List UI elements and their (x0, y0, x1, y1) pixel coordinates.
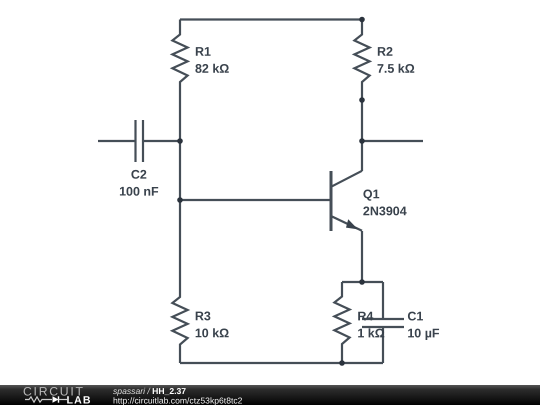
svg-text:Q1: Q1 (363, 187, 380, 201)
node base (177, 197, 183, 203)
svg-text:R1: R1 (195, 45, 211, 59)
transistor Q1 (331, 141, 362, 231)
svg-text:7.5 kΩ: 7.5 kΩ (377, 62, 415, 76)
svg-text:LAB: LAB (67, 394, 92, 405)
wire output (362, 140, 423, 142)
wire R1 bottom to node (179, 100, 181, 141)
wire R2 bottom to collector node (361, 100, 363, 141)
svg-text:R4: R4 (357, 309, 373, 323)
node top right (359, 17, 365, 23)
wire R4 top rail (342, 281, 383, 283)
svg-text:82 kΩ: 82 kΩ (195, 62, 229, 76)
node emitter rail (359, 279, 365, 285)
capacitor C1 (362, 282, 404, 363)
CircuitLab logo (23, 385, 92, 407)
node C2 right (177, 138, 183, 144)
svg-text:C2: C2 (131, 168, 147, 182)
svg-text:C1: C1 (407, 309, 423, 323)
node R4 bottom (339, 360, 345, 366)
svg-text:2N3904: 2N3904 (363, 204, 407, 218)
svg-text:1 kΩ: 1 kΩ (357, 326, 384, 340)
resistor R3 (172, 282, 187, 363)
node R2 bottom (359, 97, 365, 103)
wire top rail (180, 18, 362, 20)
capacitor C2 (98, 120, 180, 162)
wire bottom rail (180, 362, 383, 364)
svg-text:100 nF: 100 nF (119, 185, 159, 199)
wire left column to R3 (179, 200, 181, 282)
svg-text:10 kΩ: 10 kΩ (195, 326, 229, 340)
svg-text:R2: R2 (377, 45, 393, 59)
resistor R1 (172, 20, 187, 101)
wire left column down (179, 141, 181, 200)
svg-text:http://circuitlab.com/ctz53kp6: http://circuitlab.com/ctz53kp6t8tc2 (113, 395, 243, 405)
wire emitter to node (361, 231, 363, 282)
svg-text:R3: R3 (195, 309, 211, 323)
wire base (180, 199, 330, 201)
resistor R2 (354, 20, 369, 101)
svg-text:10 µF: 10 µF (407, 326, 440, 340)
footer bar (0, 385, 540, 405)
node collector (359, 138, 365, 144)
resistor R4 (334, 282, 349, 363)
